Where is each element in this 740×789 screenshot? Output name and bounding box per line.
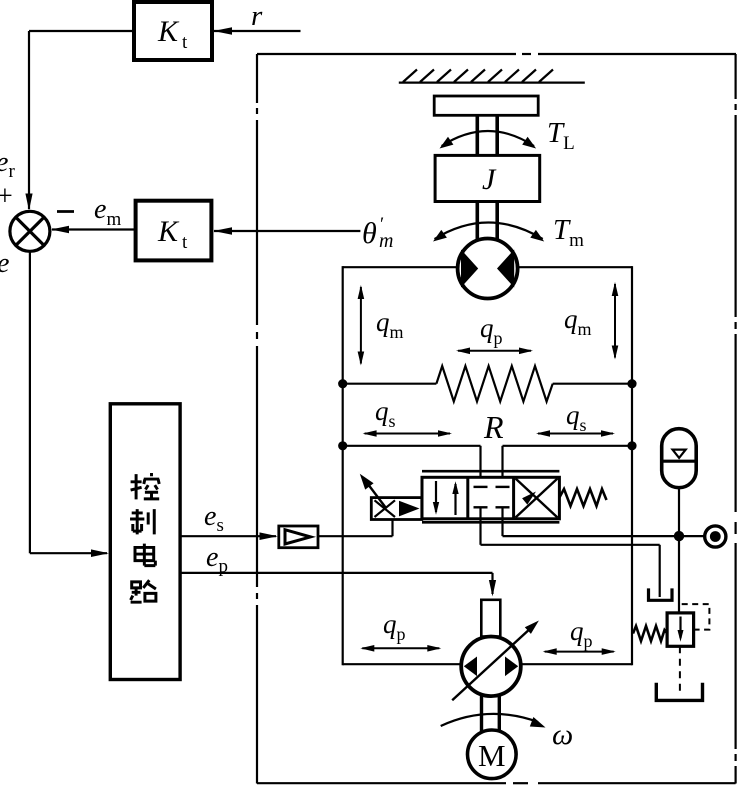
- outer phantom enclosure border: [257, 54, 736, 784]
- svg-text:t: t: [182, 232, 188, 253]
- node right lower: [627, 441, 636, 450]
- junction dot: [674, 531, 684, 541]
- speed arc omega: [441, 714, 546, 728]
- svg-text:qm: qm: [376, 307, 404, 342]
- label dian (control char 3): [135, 544, 155, 566]
- svg-text:K: K: [157, 215, 180, 248]
- wire K_t2 to summing junction: [51, 226, 136, 234]
- block K_t2 (feedback transducer): [136, 201, 212, 261]
- svg-text:r: r: [251, 0, 263, 32]
- svg-text:ep: ep: [206, 542, 228, 577]
- shaft lower: [477, 202, 497, 241]
- svg-text:e: e: [0, 248, 9, 279]
- main loop piping: [343, 266, 632, 665]
- svg-text:J: J: [482, 163, 497, 196]
- svg-text:M: M: [478, 738, 506, 773]
- valve left position flow arrows: [433, 481, 459, 515]
- svg-text:qp: qp: [570, 616, 593, 651]
- inertia J: [435, 155, 540, 201]
- tank upper: [649, 588, 673, 600]
- svg-text:qs: qs: [375, 396, 396, 431]
- flow arrow q_m left: [358, 285, 365, 366]
- svg-text:qp: qp: [480, 313, 503, 348]
- variable displacement pump: [461, 637, 521, 697]
- pipe valve port B to accumulator junction: [503, 509, 705, 537]
- relief valve drain (dashed): [679, 646, 681, 692]
- block K_t (top feedback gain): [134, 2, 212, 60]
- valve right position crossed flow: [516, 479, 558, 518]
- shaft upper: [477, 115, 497, 155]
- flow arrow q_m right: [612, 282, 619, 360]
- torque arc T_m: [433, 223, 544, 242]
- svg-text:ω: ω: [552, 718, 573, 751]
- summing junction: [10, 211, 50, 251]
- wire e_p to pump stroking actuator: [180, 573, 496, 597]
- wire r input: [214, 27, 301, 35]
- svg-text:qs: qs: [566, 400, 587, 435]
- proportional solenoid: [371, 498, 422, 520]
- svg-text:er: er: [0, 147, 15, 182]
- label lu (control char 4): [131, 580, 156, 602]
- pump drive shaft: [482, 696, 500, 731]
- torque arc T_L: [440, 131, 537, 149]
- svg-text:m: m: [379, 230, 393, 252]
- svg-text:qm: qm: [564, 304, 592, 339]
- svg-text:Tm: Tm: [553, 214, 584, 251]
- svg-text:es: es: [204, 501, 224, 536]
- pump variable arrow: [452, 621, 539, 701]
- valve centre blocked ports: [474, 487, 510, 507]
- fixed support bar: [434, 96, 538, 115]
- valve return spring: [559, 489, 606, 506]
- label zhi (control char 2): [130, 509, 154, 534]
- flow arrow q_s left: [363, 430, 452, 437]
- relief valve spring: [633, 626, 667, 641]
- svg-text:θ: θ: [362, 217, 377, 250]
- svg-text:+: +: [0, 181, 13, 212]
- svg-text:em: em: [94, 194, 121, 230]
- wire amplifier to solenoid: [318, 520, 393, 537]
- control circuit box: [110, 404, 180, 680]
- label minus: [57, 210, 74, 213]
- pump stroking actuator: [481, 600, 500, 637]
- svg-text:R: R: [483, 409, 504, 445]
- label kong (control char 1): [131, 473, 160, 499]
- hydraulic motor: [458, 239, 518, 299]
- flow arrow q_p middle: [456, 348, 533, 355]
- pipe accumulator to junction: [678, 488, 680, 531]
- wire theta_m feedback: [214, 227, 361, 235]
- phantom border chain-line gaps: [257, 54, 736, 783]
- servo valve housing rails: [422, 471, 559, 522]
- node right upper: [627, 379, 636, 388]
- svg-text:TL: TL: [547, 117, 575, 154]
- flow arrow q_p lower left: [360, 645, 441, 652]
- relief valve: [667, 613, 694, 646]
- svg-text:qp: qp: [383, 609, 406, 644]
- wire summing junction to control box: [30, 252, 109, 558]
- svg-text:K: K: [157, 15, 180, 48]
- tank lower: [656, 683, 702, 701]
- electric motor M: [468, 730, 517, 779]
- pipe valve port A to tank: [481, 509, 660, 598]
- wire K_t to summing junction: [25, 31, 134, 211]
- accumulator: [662, 429, 697, 488]
- solenoid proportional arrow: [360, 474, 386, 508]
- svg-text:t: t: [182, 32, 188, 53]
- pipe run to valve ports: [343, 446, 632, 486]
- wire e_s to amplifier: [180, 532, 278, 540]
- pipe junction to relief valve: [678, 541, 680, 613]
- node left lower: [338, 441, 347, 450]
- flow arrow q_p lower right: [543, 648, 616, 655]
- fixed wall hatching: [399, 70, 585, 83]
- node left upper: [338, 379, 347, 388]
- servo valve body: [422, 477, 559, 519]
- amplifier: [279, 526, 318, 548]
- flow arrow q_s right: [536, 430, 615, 437]
- pressure gauge port: [705, 526, 726, 547]
- leakage resistance R line with spring: [343, 366, 632, 402]
- relief valve pilot line (dashed): [680, 604, 709, 630]
